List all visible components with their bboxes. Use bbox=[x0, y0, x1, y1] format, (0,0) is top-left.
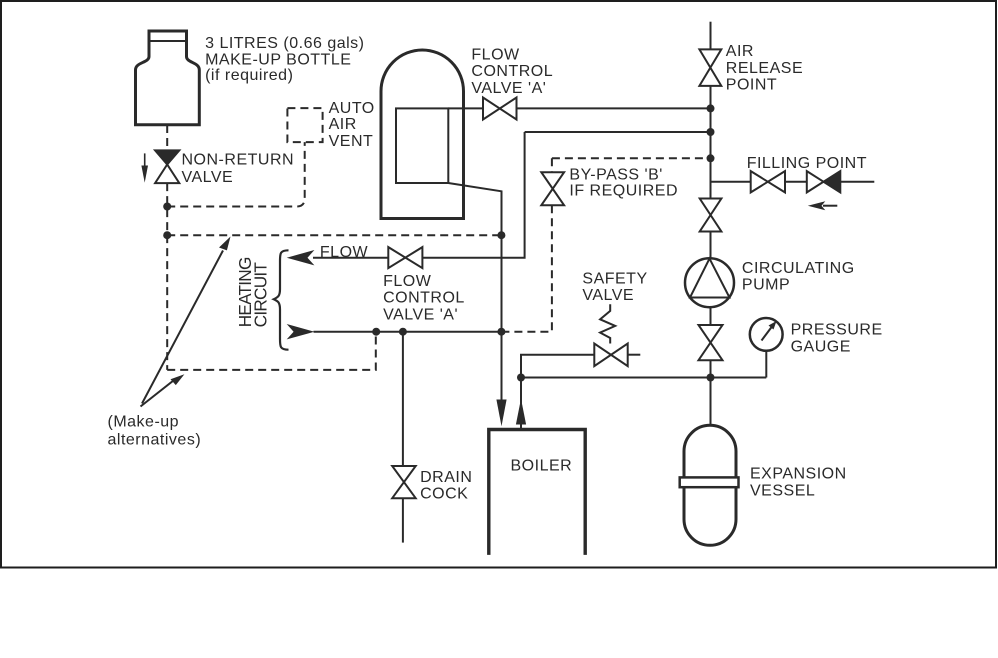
svg-text:CONTROL: CONTROL bbox=[383, 290, 465, 307]
svg-text:CONTROL: CONTROL bbox=[471, 63, 553, 80]
svg-text:VESSEL: VESSEL bbox=[750, 483, 815, 500]
svg-text:SAFETY: SAFETY bbox=[582, 270, 647, 287]
svg-text:AIR: AIR bbox=[726, 43, 754, 60]
svg-text:VALVE 'A': VALVE 'A' bbox=[471, 80, 546, 97]
svg-text:(Make-up: (Make-up bbox=[108, 414, 180, 431]
svg-text:GAUGE: GAUGE bbox=[791, 338, 851, 355]
svg-text:NON-RETURN: NON-RETURN bbox=[182, 151, 295, 168]
svg-text:FLOW: FLOW bbox=[383, 273, 432, 290]
svg-text:AUTO: AUTO bbox=[329, 100, 375, 117]
svg-text:IF REQUIRED: IF REQUIRED bbox=[569, 183, 678, 200]
svg-text:VALVE: VALVE bbox=[182, 169, 234, 186]
svg-text:BY-PASS 'B': BY-PASS 'B' bbox=[569, 167, 662, 184]
svg-text:FLOW: FLOW bbox=[471, 47, 520, 64]
svg-text:DRAIN: DRAIN bbox=[420, 469, 472, 486]
svg-text:RELEASE: RELEASE bbox=[726, 60, 803, 77]
svg-text:CIRCULATING: CIRCULATING bbox=[742, 260, 855, 277]
svg-text:CIRCUIT: CIRCUIT bbox=[251, 262, 271, 328]
svg-text:AIR: AIR bbox=[329, 116, 357, 133]
svg-text:PUMP: PUMP bbox=[742, 277, 790, 294]
svg-text:PRESSURE: PRESSURE bbox=[791, 322, 883, 339]
svg-text:POINT: POINT bbox=[726, 77, 777, 94]
svg-text:(if required): (if required) bbox=[205, 67, 293, 84]
svg-text:FLOW: FLOW bbox=[320, 244, 369, 261]
svg-text:VENT: VENT bbox=[329, 133, 374, 150]
svg-text:alternatives): alternatives) bbox=[108, 432, 202, 449]
svg-text:3 LITRES (0.66 gals): 3 LITRES (0.66 gals) bbox=[205, 35, 364, 52]
svg-text:COCK: COCK bbox=[420, 485, 468, 502]
svg-text:VALVE 'A': VALVE 'A' bbox=[383, 306, 458, 323]
svg-text:EXPANSION: EXPANSION bbox=[750, 465, 847, 482]
svg-text:FILLING POINT: FILLING POINT bbox=[747, 155, 867, 172]
svg-text:VALVE: VALVE bbox=[582, 287, 634, 304]
svg-text:BOILER: BOILER bbox=[511, 457, 573, 474]
